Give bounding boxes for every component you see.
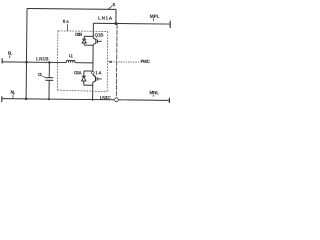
transistor Q1B — [93, 38, 96, 40]
wire left vertical — [25, 8, 28, 98]
wire D1B branch stubs — [84, 35, 93, 37]
terminal PL bar — [1, 58, 3, 63]
arrowhead PWC — [108, 61, 112, 64]
svg-text:MNL: MNL — [149, 90, 159, 95]
wire PL line — [2, 61, 66, 64]
transistor Q1A — [93, 75, 95, 77]
svg-text:L1: L1 — [69, 53, 74, 58]
wire top edge — [27, 7, 116, 10]
svg-text:PWC: PWC — [140, 59, 150, 64]
node dot C1-NL — [48, 98, 50, 100]
dashed PWC line — [111, 61, 140, 63]
wire right-top vertical — [115, 9, 117, 23]
terminal NL bar — [1, 96, 3, 102]
leader 8 — [108, 6, 112, 10]
dashed sense line LN1A-LN1C — [115, 24, 118, 98]
leader 8a — [67, 24, 69, 31]
svg-text:MPL: MPL — [150, 14, 160, 19]
capacitor C1 plates — [45, 77, 53, 79]
wire leg lower — [92, 83, 94, 100]
svg-text:Q1A: Q1A — [91, 70, 102, 75]
leader C1 — [42, 76, 45, 77]
svg-text:PL: PL — [8, 51, 13, 56]
leader PL — [9, 55, 11, 58]
svg-text:D1B: D1B — [75, 32, 83, 37]
inductor L1 — [66, 60, 75, 62]
wire L1 to leg — [75, 62, 93, 64]
svg-text:8: 8 — [112, 2, 115, 7]
terminal MPL bar — [169, 21, 171, 28]
node dot left-PL — [25, 61, 28, 64]
svg-text:NL: NL — [10, 90, 15, 95]
leader MPL — [153, 18, 155, 21]
capacitor C1 branch wires — [48, 62, 50, 77]
wire NL line — [2, 99, 170, 101]
svg-text:8a: 8a — [63, 19, 69, 24]
svg-text:C1: C1 — [38, 72, 43, 77]
wire D1A branch stubs — [84, 70, 93, 72]
diode D1B — [82, 38, 86, 40]
svg-text:D1A: D1A — [74, 70, 82, 75]
node dot LN1B — [48, 61, 51, 64]
node dot leg-NL — [91, 98, 93, 100]
svg-text:LN1A: LN1A — [98, 16, 113, 21]
leader MNL — [152, 95, 154, 97]
terminal MNL bar — [168, 98, 170, 103]
diode D1A — [82, 75, 86, 77]
wire leg upper — [92, 23, 94, 38]
dashed box 8a — [57, 31, 108, 92]
leader NL — [12, 94, 14, 98]
svg-text:LN1C: LN1C — [100, 95, 112, 100]
svg-text:LN1B: LN1B — [36, 56, 49, 61]
node dot left-NL — [25, 98, 28, 101]
wire leg middle — [92, 45, 94, 71]
node dot LN1A — [114, 22, 117, 25]
wire LN1A horizontal and MPL line — [93, 22, 170, 25]
svg-text:Q1B: Q1B — [95, 32, 105, 37]
node circle LN1C — [114, 98, 118, 102]
